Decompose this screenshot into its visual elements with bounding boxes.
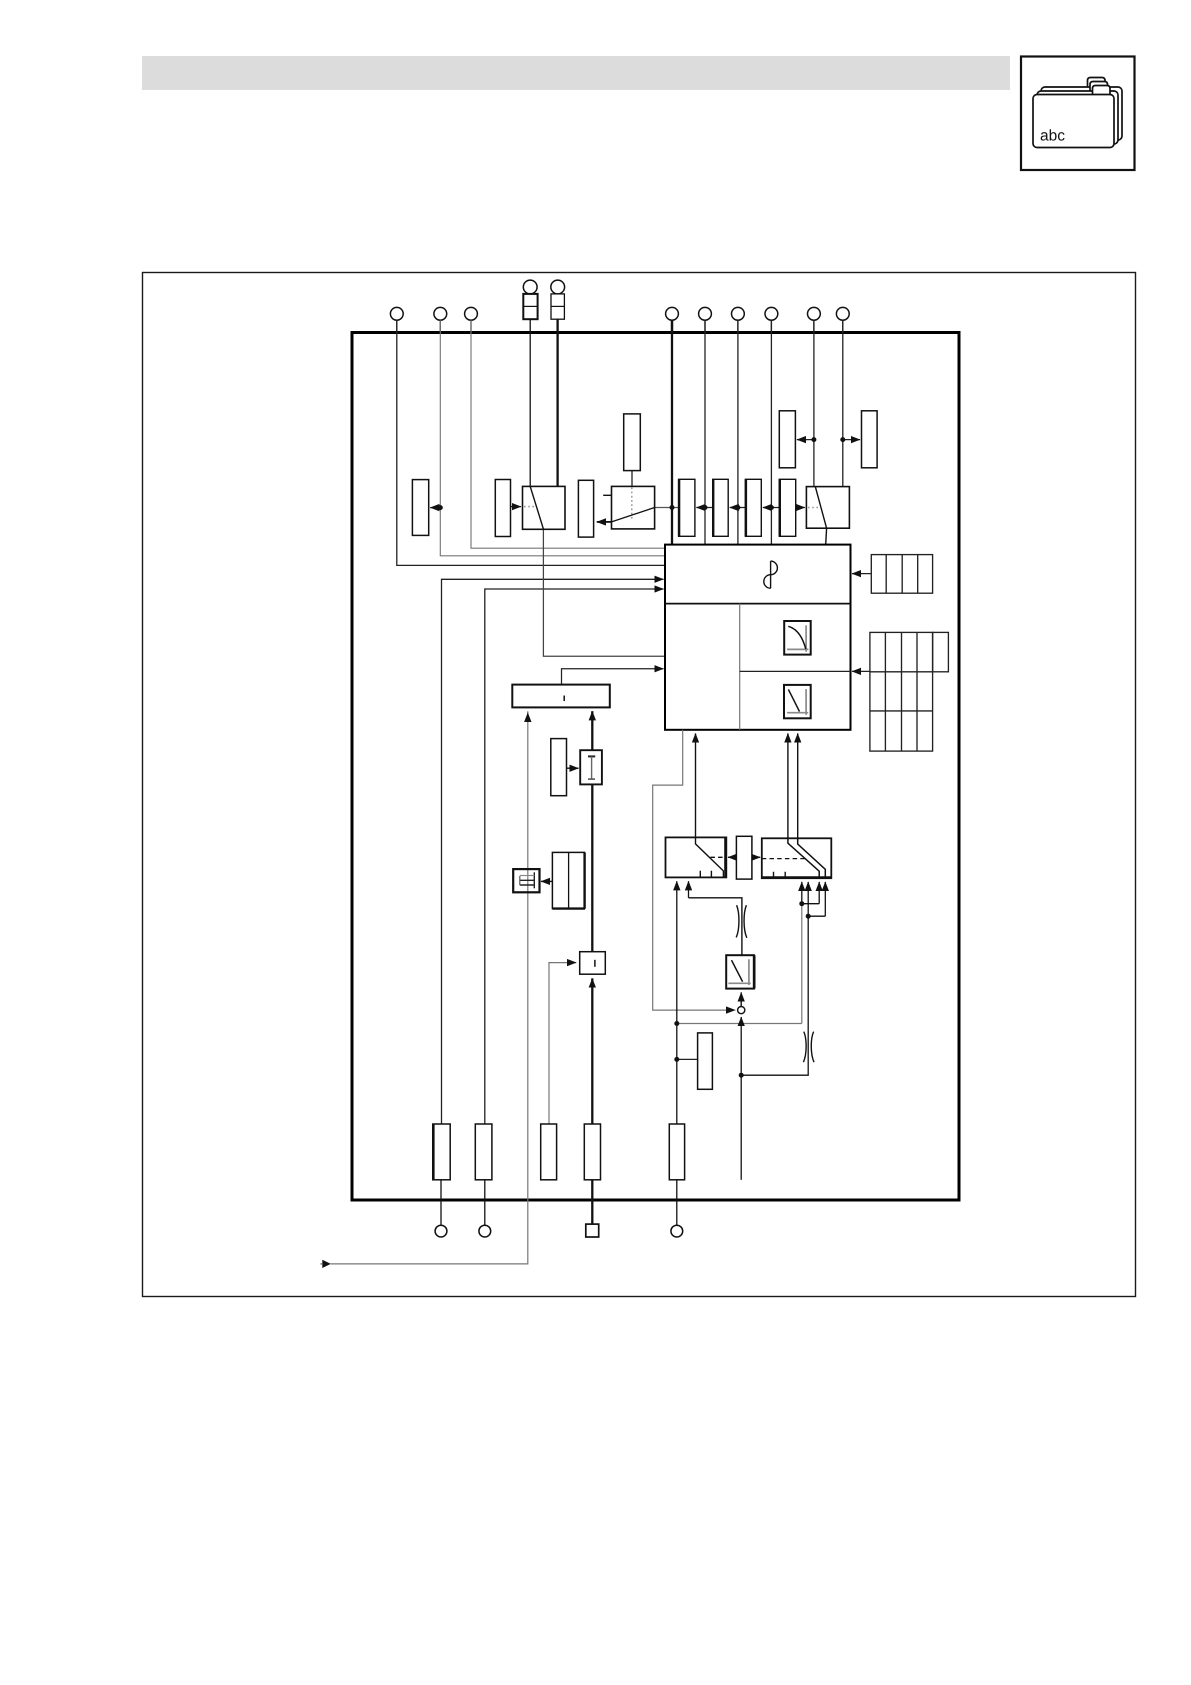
svg-text:abc: abc (1040, 128, 1065, 145)
